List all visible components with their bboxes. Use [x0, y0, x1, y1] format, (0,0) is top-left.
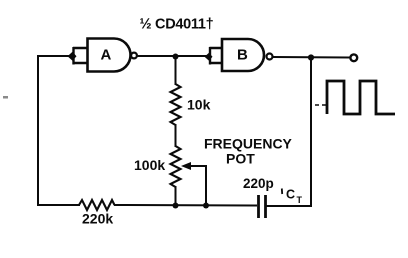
stray scan mark: [3, 96, 8, 99]
svg-text:FREQUENCY: FREQUENCY: [204, 136, 293, 152]
svg-text:220p: 220p: [243, 176, 274, 191]
label CT: [286, 188, 303, 206]
svg-text:C: C: [286, 188, 295, 202]
wire 100k bottom lead: [175, 186, 177, 206]
svg-text:A: A: [101, 47, 112, 64]
svg-text:POT: POT: [226, 151, 255, 167]
svg-text:T: T: [297, 195, 303, 205]
wire junction down to 10k: [175, 57, 177, 86]
junction wiper bottom: [203, 203, 209, 209]
wire 10k to 100k: [175, 124, 177, 147]
label CT tick: [281, 189, 283, 195]
resistor 220k: [79, 200, 115, 210]
wire gate B output to terminal: [273, 56, 350, 59]
wire 220k to capacitor: [114, 204, 257, 207]
svg-text:220k: 220k: [82, 211, 113, 227]
wire capacitor to right vertical: [266, 205, 312, 207]
wire left vertical: [37, 56, 39, 205]
svg-text:B: B: [237, 47, 248, 64]
svg-text:½ CD4011†: ½ CD4011†: [140, 17, 214, 33]
NAND gate A: [73, 39, 137, 72]
wire gate A output to gate B input: [137, 55, 209, 57]
junction B input: [205, 53, 213, 61]
junction between gates: [173, 54, 179, 60]
NAND gate B: [210, 39, 273, 71]
junction output node: [308, 54, 314, 60]
output terminal: [350, 54, 357, 61]
junction 100k bottom: [173, 203, 179, 209]
pot wiper arrow: [181, 162, 206, 206]
svg-text:100k: 100k: [134, 157, 165, 173]
svg-text:10k: 10k: [187, 97, 211, 113]
wire top-left horizontal into gate A: [37, 55, 72, 57]
wire right vertical: [310, 58, 312, 207]
square wave symbol: [315, 81, 395, 114]
potentiometer 100k: [171, 146, 181, 187]
capacitor CT: [259, 195, 266, 218]
wire bottom left: [37, 204, 80, 206]
junction A input: [68, 52, 77, 61]
resistor 10k: [171, 84, 181, 125]
